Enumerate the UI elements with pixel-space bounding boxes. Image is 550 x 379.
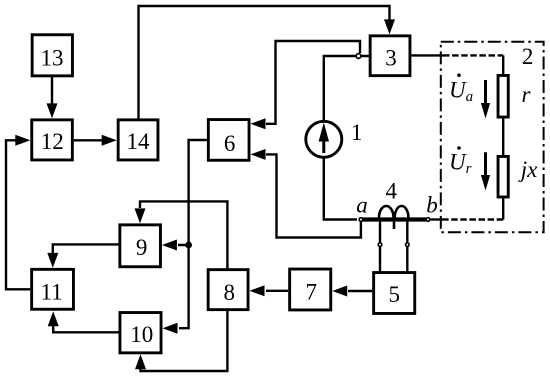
svg-text:3: 3 xyxy=(385,46,397,71)
svg-text:7: 7 xyxy=(305,279,317,304)
svg-text:12: 12 xyxy=(41,129,64,154)
svg-text:a: a xyxy=(356,193,368,218)
svg-text:13: 13 xyxy=(41,46,64,71)
svg-text:6: 6 xyxy=(224,131,236,156)
svg-text:r: r xyxy=(522,82,532,107)
svg-text:5: 5 xyxy=(388,282,400,307)
svg-text:8: 8 xyxy=(224,280,236,305)
svg-text:2: 2 xyxy=(522,44,534,69)
svg-text:11: 11 xyxy=(41,279,63,304)
svg-text:1: 1 xyxy=(351,120,363,145)
svg-text:jx: jx xyxy=(518,157,538,182)
svg-text:b: b xyxy=(426,193,438,218)
svg-text:10: 10 xyxy=(130,322,153,347)
svg-text:4: 4 xyxy=(385,178,397,203)
svg-text:9: 9 xyxy=(136,235,148,260)
svg-text:14: 14 xyxy=(127,129,151,154)
